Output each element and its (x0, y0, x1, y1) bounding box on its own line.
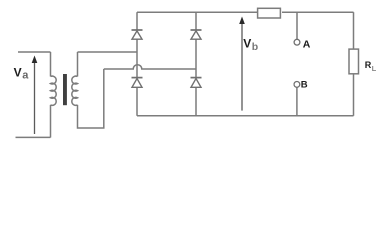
svg-text:L: L (372, 64, 377, 73)
svg-text:A: A (303, 39, 311, 51)
svg-text:B: B (301, 80, 308, 91)
svg-text:V: V (243, 37, 251, 51)
svg-text:V: V (14, 65, 22, 79)
svg-text:b: b (252, 41, 258, 53)
svg-text:a: a (22, 70, 29, 82)
